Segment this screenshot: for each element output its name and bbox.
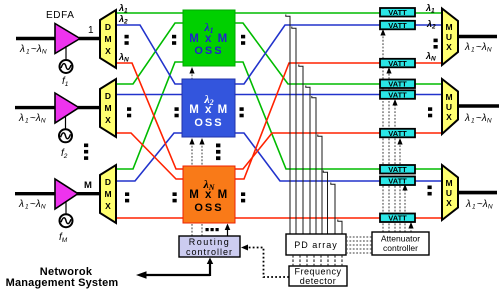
svg-text:OSS: OSS [194, 117, 223, 129]
svg-text:U: U [446, 32, 452, 42]
svg-text:X: X [446, 112, 452, 122]
svg-text:VATT: VATT [388, 214, 407, 223]
svg-text:VATT: VATT [388, 165, 407, 174]
svg-text:D: D [105, 177, 111, 187]
svg-text:PD array: PD array [294, 240, 338, 250]
svg-text:Attenuator: Attenuator [381, 234, 420, 244]
svg-text:VATT: VATT [388, 80, 407, 89]
svg-text:X: X [446, 198, 452, 208]
svg-text:controller: controller [383, 243, 418, 253]
svg-text:EDFA: EDFA [46, 10, 75, 21]
svg-text:VATT: VATT [388, 59, 407, 68]
svg-text:VATT: VATT [388, 21, 407, 30]
svg-text:D: D [105, 22, 111, 32]
svg-text:M: M [84, 180, 92, 191]
svg-text:M: M [445, 178, 452, 188]
svg-text:X: X [105, 115, 111, 125]
svg-text:X: X [105, 46, 111, 56]
svg-text:VATT: VATT [388, 8, 407, 17]
svg-text:VATT: VATT [388, 90, 407, 99]
svg-text:VATT: VATT [388, 129, 407, 138]
svg-text:detector: detector [300, 276, 337, 286]
svg-text:OSS: OSS [194, 45, 223, 57]
svg-text:X: X [105, 201, 111, 211]
svg-text:Routing: Routing [189, 237, 231, 247]
svg-text:OSS: OSS [194, 202, 223, 214]
svg-text:M: M [104, 34, 111, 44]
svg-text:D: D [105, 91, 111, 101]
svg-text:Management System: Management System [6, 277, 119, 289]
svg-text:X: X [446, 42, 452, 52]
svg-text:M: M [104, 189, 111, 199]
svg-text:M x M: M x M [189, 104, 228, 116]
svg-text:M x M: M x M [189, 33, 228, 45]
svg-text:U: U [446, 102, 452, 112]
svg-text:controller: controller [186, 247, 233, 257]
svg-text:M: M [445, 92, 452, 102]
svg-text:M: M [104, 103, 111, 113]
svg-text:Frequency: Frequency [294, 267, 341, 277]
svg-text:M x M: M x M [189, 189, 228, 201]
svg-text:VATT: VATT [388, 177, 407, 186]
svg-text:U: U [446, 188, 452, 198]
svg-text:1: 1 [88, 25, 94, 36]
svg-text:M: M [445, 22, 452, 32]
